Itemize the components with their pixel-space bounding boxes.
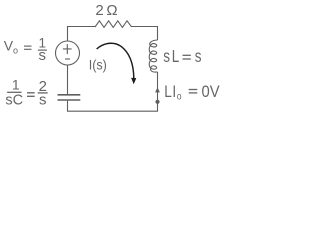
- svg-text:2: 2: [95, 2, 103, 19]
- mesh arrowhead: [131, 78, 136, 85]
- capacitor C bottom plate: [58, 99, 81, 101]
- svg-text:0V: 0V: [202, 83, 220, 101]
- label LI0 = 0V (condensed): [164, 83, 181, 103]
- equals sign 2: [27, 93, 35, 97]
- capacitor C top plate: [58, 94, 81, 96]
- minus sign: [65, 58, 70, 60]
- svg-text:o: o: [13, 46, 18, 56]
- label 0V value: [202, 83, 220, 101]
- inductor sL coil: [149, 40, 157, 72]
- junction dot: [155, 100, 159, 104]
- svg-text:s: s: [163, 47, 170, 66]
- equals sign 3: [183, 55, 191, 59]
- wire bottom: [68, 72, 158, 111]
- plus sign: [63, 44, 72, 54]
- resistor R 2ohm: [95, 21, 132, 28]
- svg-text:s: s: [195, 47, 202, 66]
- wire source to capacitor: [67, 65, 69, 94]
- svg-text:I(s): I(s): [89, 57, 107, 73]
- equals sign 4: [189, 90, 198, 93]
- svg-text:1: 1: [12, 77, 20, 93]
- equals sign 1: [24, 46, 32, 49]
- mesh current arrow I(s): [97, 43, 134, 78]
- svg-text:L: L: [172, 47, 180, 66]
- svg-text:o: o: [177, 90, 182, 102]
- wire top-left: [68, 27, 96, 42]
- LI0 arrowhead up: [155, 87, 160, 92]
- svg-text:s: s: [39, 92, 47, 109]
- svg-text:s: s: [39, 47, 47, 64]
- svg-text:I: I: [172, 83, 176, 102]
- voltage source V1 circle: [56, 41, 80, 65]
- wire top-right: [132, 27, 158, 41]
- svg-text:sC: sC: [5, 93, 23, 109]
- label sL = s (condensed): [163, 47, 201, 66]
- svg-text:L: L: [164, 83, 172, 102]
- svg-text:Ω: Ω: [106, 2, 117, 19]
- label I(s): [89, 57, 107, 73]
